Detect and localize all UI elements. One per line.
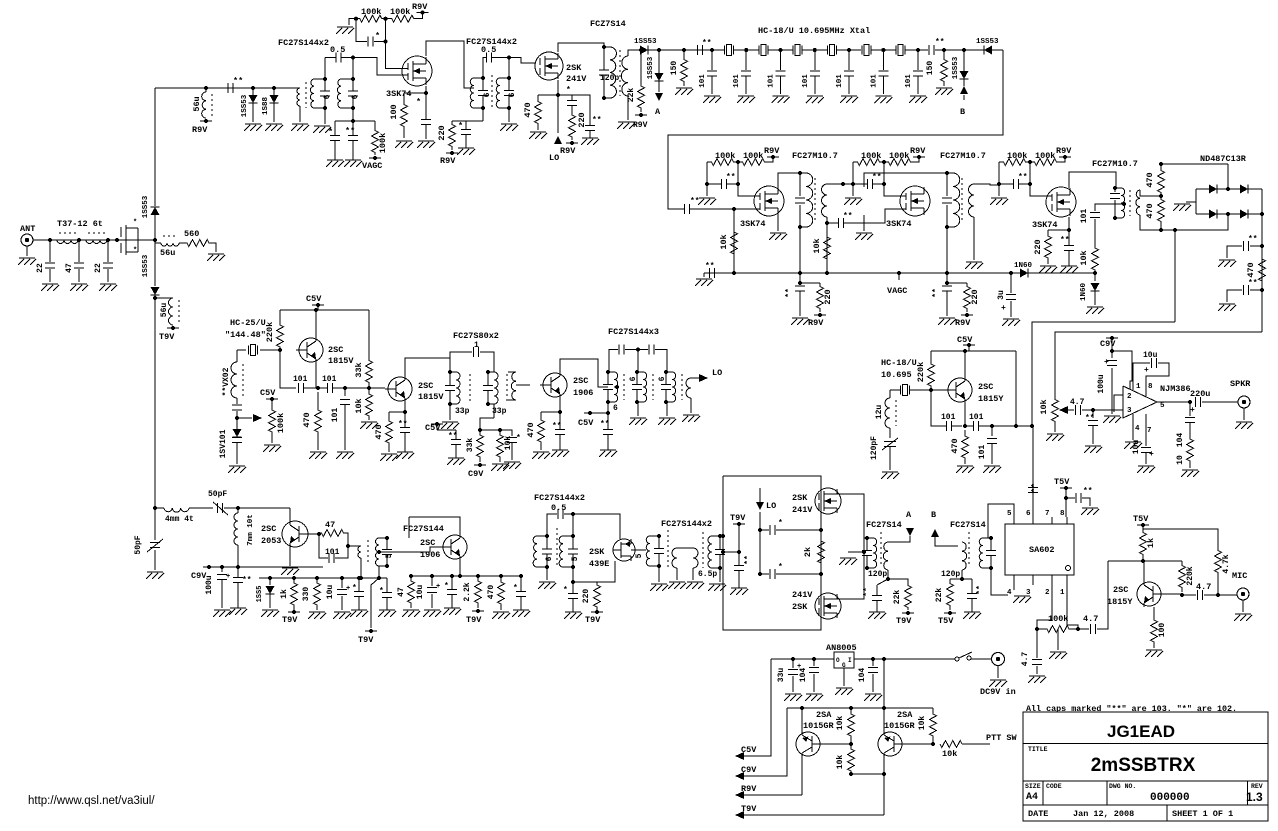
- svg-text:2SK: 2SK: [792, 602, 808, 612]
- svg-text:1SS5: 1SS5: [256, 586, 264, 603]
- svg-text:000000: 000000: [1150, 792, 1190, 804]
- svg-text:1SS53: 1SS53: [634, 38, 657, 46]
- svg-text:100k: 100k: [861, 151, 881, 161]
- svg-text:1N60: 1N60: [1080, 283, 1088, 302]
- svg-text:6: 6: [658, 376, 667, 381]
- svg-text:10: 10: [1176, 455, 1185, 465]
- svg-text:10.695: 10.695: [881, 370, 912, 380]
- svg-text:100k: 100k: [715, 151, 735, 161]
- svg-text:104: 104: [1176, 433, 1185, 448]
- svg-text:10u: 10u: [326, 585, 335, 600]
- svg-text:*: *: [563, 586, 568, 595]
- svg-text:C5V: C5V: [578, 418, 594, 428]
- svg-text:**: **: [705, 262, 715, 271]
- svg-text:4mm 4t: 4mm 4t: [165, 515, 194, 524]
- svg-text:NJM386: NJM386: [1160, 384, 1191, 394]
- svg-text:1: 1: [1060, 589, 1065, 597]
- svg-text:220: 220: [1033, 239, 1043, 254]
- svg-text:*: *: [778, 519, 783, 528]
- svg-text:470: 470: [487, 585, 496, 600]
- svg-text:4.7: 4.7: [1083, 614, 1098, 624]
- svg-text:5: 5: [385, 553, 394, 558]
- svg-text:**: **: [600, 420, 610, 429]
- svg-text:**: **: [1083, 487, 1093, 496]
- svg-text:R9V: R9V: [764, 146, 780, 156]
- svg-text:2053: 2053: [261, 536, 281, 546]
- svg-text:0.5: 0.5: [330, 45, 345, 55]
- svg-text:10k: 10k: [719, 234, 729, 249]
- svg-text:*: *: [352, 584, 357, 593]
- svg-text:**: **: [744, 555, 753, 565]
- svg-text:R9V: R9V: [633, 121, 648, 130]
- svg-text:**: **: [976, 585, 985, 595]
- svg-text:1N60: 1N60: [1014, 262, 1033, 270]
- svg-text:101: 101: [1080, 209, 1089, 224]
- svg-text:**: **: [242, 576, 252, 585]
- svg-text:A: A: [906, 510, 912, 520]
- svg-text:10k: 10k: [354, 398, 364, 413]
- svg-text:HC-18/U: HC-18/U: [881, 358, 917, 368]
- svg-text:10u: 10u: [416, 585, 425, 600]
- svg-text:100k: 100k: [743, 151, 763, 161]
- svg-text:*: *: [778, 563, 783, 572]
- svg-text:330: 330: [302, 587, 311, 602]
- svg-text:FC27M10.7: FC27M10.7: [940, 151, 986, 161]
- svg-text:R9V: R9V: [955, 318, 971, 328]
- svg-text:33u: 33u: [777, 668, 786, 683]
- svg-text:SHEET 1 OF 1: SHEET 1 OF 1: [1172, 809, 1233, 819]
- svg-text:1815Y: 1815Y: [978, 394, 1004, 404]
- svg-text:470: 470: [523, 102, 533, 117]
- svg-text:Jan 12, 2008: Jan 12, 2008: [1073, 809, 1134, 819]
- svg-text:100k: 100k: [390, 7, 410, 17]
- svg-text:**: **: [843, 212, 853, 221]
- svg-text:47: 47: [65, 263, 74, 273]
- svg-text:4.7: 4.7: [1070, 398, 1085, 407]
- svg-text:10k: 10k: [1079, 250, 1089, 265]
- svg-text:ANT: ANT: [20, 224, 35, 234]
- svg-text:220: 220: [437, 125, 447, 140]
- svg-text:101: 101: [331, 408, 340, 423]
- svg-text:2SK: 2SK: [589, 547, 605, 557]
- svg-text:6: 6: [508, 92, 517, 97]
- svg-text:T9V: T9V: [466, 615, 482, 625]
- svg-text:22: 22: [94, 263, 103, 273]
- svg-text:22: 22: [36, 263, 45, 273]
- svg-text:FC27S144x3: FC27S144x3: [608, 327, 659, 337]
- svg-text:10u: 10u: [1143, 351, 1158, 360]
- svg-text:104: 104: [799, 668, 808, 683]
- svg-text:101: 101: [978, 445, 987, 460]
- svg-text:4.7k: 4.7k: [1222, 554, 1231, 573]
- svg-text:2mSSBTRX: 2mSSBTRX: [1091, 755, 1196, 776]
- svg-text:101: 101: [941, 413, 956, 422]
- svg-text:1S88: 1S88: [262, 97, 270, 116]
- svg-text:50pF: 50pF: [134, 535, 143, 554]
- svg-text:**: **: [872, 173, 882, 182]
- svg-text:220: 220: [823, 289, 833, 304]
- svg-text:33k: 33k: [466, 438, 475, 453]
- svg-text:**: **: [690, 197, 700, 206]
- svg-text:VAGC: VAGC: [887, 286, 907, 296]
- svg-text:6: 6: [1026, 510, 1031, 518]
- svg-text:*: *: [416, 97, 421, 107]
- svg-text:241V: 241V: [566, 74, 587, 84]
- svg-text:C9V: C9V: [1100, 339, 1116, 349]
- svg-text:T9V: T9V: [358, 635, 374, 645]
- svg-text:ND487C13R: ND487C13R: [1200, 154, 1247, 164]
- svg-text:http://www.qsl.net/va3iul/: http://www.qsl.net/va3iul/: [28, 795, 155, 807]
- svg-text:6: 6: [351, 94, 360, 99]
- svg-text:R9V: R9V: [192, 125, 208, 135]
- svg-text:241V: 241V: [792, 590, 813, 600]
- svg-text:6: 6: [545, 556, 554, 561]
- svg-text:220: 220: [970, 289, 980, 304]
- svg-text:TITLE: TITLE: [1028, 746, 1048, 753]
- svg-text:*: *: [444, 582, 449, 591]
- svg-text:FC27S14: FC27S14: [866, 520, 902, 530]
- svg-text:FC27S14: FC27S14: [950, 520, 986, 530]
- svg-text:B: B: [931, 510, 936, 520]
- svg-text:56u: 56u: [160, 303, 169, 318]
- svg-text:R9V: R9V: [412, 2, 428, 12]
- svg-text:CODE: CODE: [1046, 783, 1062, 790]
- svg-text:FC27S144x2: FC27S144x2: [278, 38, 329, 48]
- svg-text:VAGC: VAGC: [362, 161, 382, 171]
- svg-text:101: 101: [969, 413, 984, 422]
- svg-text:C9V: C9V: [468, 469, 484, 479]
- svg-text:R9V: R9V: [440, 156, 456, 166]
- svg-text:HC-18/U 10.695MHz Xtal: HC-18/U 10.695MHz Xtal: [758, 26, 870, 36]
- svg-text:**: **: [1060, 236, 1070, 245]
- svg-text:100k: 100k: [378, 133, 388, 153]
- svg-text:22k: 22k: [627, 88, 636, 103]
- svg-text:120p: 120p: [600, 74, 619, 83]
- svg-text:6: 6: [613, 404, 618, 413]
- svg-text:1906: 1906: [420, 550, 440, 560]
- svg-text:**: **: [398, 420, 408, 429]
- svg-text:C5V: C5V: [425, 423, 441, 433]
- svg-text:10k: 10k: [812, 238, 822, 253]
- svg-text:101: 101: [836, 74, 844, 88]
- svg-text:56u: 56u: [160, 248, 175, 258]
- svg-text:104: 104: [858, 668, 867, 683]
- svg-text:C5V: C5V: [957, 335, 973, 345]
- svg-text:470: 470: [1145, 203, 1155, 218]
- svg-text:100k: 100k: [361, 7, 381, 17]
- svg-text:LO: LO: [766, 501, 776, 511]
- svg-text:3SK74: 3SK74: [386, 89, 412, 99]
- svg-text:**: **: [448, 432, 458, 441]
- svg-text:1k: 1k: [280, 589, 289, 599]
- svg-text:+: +: [1144, 366, 1149, 375]
- svg-text:I: I: [848, 657, 852, 664]
- svg-text:2SC: 2SC: [1113, 585, 1128, 595]
- svg-text:**: **: [592, 116, 602, 125]
- svg-text:150: 150: [926, 61, 935, 76]
- svg-text:R9V: R9V: [741, 784, 757, 794]
- svg-text:6: 6: [483, 92, 492, 97]
- svg-text:100: 100: [1158, 623, 1167, 638]
- svg-text:439E: 439E: [589, 559, 609, 569]
- svg-text:100k: 100k: [1048, 614, 1068, 624]
- svg-text:T5V: T5V: [1133, 514, 1149, 524]
- svg-text:100k: 100k: [276, 413, 286, 433]
- svg-text:*: *: [513, 584, 518, 593]
- svg-text:101: 101: [733, 74, 741, 88]
- svg-text:220k: 220k: [1186, 566, 1195, 585]
- svg-text:**: **: [1248, 279, 1258, 288]
- svg-text:220k: 220k: [916, 362, 926, 382]
- svg-text:+: +: [346, 585, 350, 593]
- svg-text:3SK74: 3SK74: [886, 219, 912, 229]
- svg-text:SIZE: SIZE: [1025, 783, 1041, 790]
- svg-text:101: 101: [802, 74, 810, 88]
- svg-text:C5V: C5V: [306, 294, 322, 304]
- svg-text:DATE: DATE: [1028, 809, 1048, 819]
- svg-text:T9V: T9V: [741, 804, 757, 814]
- svg-text:22k: 22k: [935, 588, 944, 603]
- svg-text:2SC: 2SC: [261, 524, 276, 534]
- svg-text:3: 3: [1127, 407, 1132, 415]
- svg-text:2.2k: 2.2k: [463, 582, 472, 601]
- svg-text:R9V: R9V: [910, 146, 926, 156]
- svg-text:8: 8: [1060, 510, 1065, 518]
- svg-text:A4: A4: [1026, 792, 1038, 803]
- svg-text:+: +: [1001, 304, 1006, 313]
- svg-text:**: **: [726, 173, 736, 182]
- svg-text:100u: 100u: [1097, 374, 1106, 393]
- svg-text:101: 101: [325, 548, 340, 557]
- svg-text:T9V: T9V: [282, 615, 298, 625]
- svg-text:*: *: [375, 31, 380, 41]
- svg-text:1: 1: [1136, 383, 1141, 391]
- svg-text:2SC: 2SC: [978, 382, 993, 392]
- svg-text:3SK74: 3SK74: [1032, 220, 1058, 230]
- svg-text:**: **: [1085, 414, 1095, 423]
- svg-text:*: *: [328, 127, 333, 137]
- svg-text:1k: 1k: [1146, 538, 1156, 548]
- svg-text:*: *: [133, 247, 137, 255]
- svg-text:T37-12 6t: T37-12 6t: [57, 219, 103, 229]
- svg-text:2SC: 2SC: [328, 345, 343, 355]
- svg-text:MIC: MIC: [1232, 571, 1247, 581]
- svg-text:DWG NO.: DWG NO.: [1109, 783, 1136, 790]
- svg-text:6.5p: 6.5p: [698, 570, 717, 579]
- svg-text:100k: 100k: [1035, 151, 1055, 161]
- svg-text:22k: 22k: [893, 590, 902, 605]
- svg-text:LO: LO: [712, 368, 722, 378]
- svg-text:120p: 120p: [868, 570, 887, 579]
- svg-text:220u: 220u: [1190, 389, 1210, 399]
- svg-text:470: 470: [1145, 172, 1155, 187]
- svg-text:*: *: [133, 219, 137, 227]
- svg-text:1SV101: 1SV101: [219, 429, 228, 458]
- svg-text:**: **: [935, 38, 945, 47]
- svg-text:2SC: 2SC: [420, 538, 435, 548]
- svg-text:3u: 3u: [997, 290, 1006, 300]
- svg-text:2SC: 2SC: [573, 376, 588, 386]
- svg-text:2k: 2k: [803, 547, 813, 557]
- svg-text:REV: REV: [1251, 783, 1263, 790]
- svg-text:A: A: [655, 107, 661, 117]
- svg-text:8: 8: [1148, 383, 1153, 391]
- svg-text:**: **: [785, 288, 794, 298]
- svg-text:5: 5: [635, 553, 644, 558]
- svg-text:**: **: [1248, 235, 1258, 244]
- svg-text:470: 470: [302, 412, 312, 427]
- svg-text:101: 101: [905, 74, 913, 88]
- svg-text:1015GR: 1015GR: [803, 721, 835, 731]
- svg-text:4: 4: [1007, 589, 1012, 597]
- svg-text:50pF: 50pF: [208, 490, 227, 499]
- svg-text:150: 150: [670, 61, 679, 76]
- svg-text:120p: 120p: [941, 570, 960, 579]
- svg-text:33k: 33k: [354, 362, 364, 377]
- svg-text:O: O: [836, 657, 840, 664]
- svg-text:101: 101: [870, 74, 878, 88]
- svg-text:*: *: [458, 121, 463, 131]
- svg-text:T5V: T5V: [1054, 477, 1070, 487]
- svg-text:T9V: T9V: [896, 616, 912, 626]
- svg-text:**: **: [932, 288, 941, 298]
- svg-text:B: B: [960, 107, 965, 117]
- svg-text:100k: 100k: [1007, 151, 1027, 161]
- svg-text:G: G: [842, 662, 846, 669]
- svg-text:**VX02: **VX02: [222, 367, 231, 396]
- svg-text:1015GR: 1015GR: [884, 721, 916, 731]
- svg-text:220: 220: [582, 589, 591, 604]
- svg-text:470: 470: [526, 422, 536, 437]
- svg-text:1906: 1906: [573, 388, 593, 398]
- svg-text:HC-25/U: HC-25/U: [230, 318, 266, 328]
- svg-text:47: 47: [397, 587, 406, 597]
- svg-text:2SK: 2SK: [792, 493, 808, 503]
- svg-text:FCZ7S14: FCZ7S14: [590, 19, 626, 29]
- svg-text:470: 470: [1246, 262, 1256, 277]
- svg-text:47: 47: [325, 520, 335, 530]
- svg-text:1SS53: 1SS53: [952, 56, 960, 79]
- svg-text:**: **: [702, 39, 712, 48]
- svg-text:R9V: R9V: [560, 146, 576, 156]
- svg-text:T9V: T9V: [159, 332, 175, 342]
- svg-text:56u: 56u: [192, 96, 202, 111]
- svg-text:2SA: 2SA: [816, 710, 832, 720]
- svg-text:FC27S144x2: FC27S144x2: [534, 493, 585, 503]
- svg-text:1SS53: 1SS53: [241, 94, 249, 117]
- svg-text:120pF: 120pF: [870, 436, 879, 460]
- svg-text:100: 100: [389, 104, 399, 119]
- svg-text:+: +: [1190, 406, 1195, 415]
- svg-text:10k: 10k: [836, 716, 845, 731]
- svg-text:*: *: [379, 587, 384, 596]
- svg-text:T9V: T9V: [585, 615, 601, 625]
- svg-text:560: 560: [184, 229, 199, 239]
- svg-text:**: **: [345, 126, 355, 136]
- svg-text:+: +: [436, 583, 440, 591]
- svg-text:12u: 12u: [875, 405, 884, 420]
- svg-text:FC27M10.7: FC27M10.7: [1092, 159, 1138, 169]
- svg-text:+: +: [226, 573, 230, 581]
- svg-text:241V: 241V: [792, 505, 813, 515]
- svg-text:101: 101: [699, 74, 707, 88]
- svg-text:7: 7: [1045, 510, 1050, 518]
- svg-text:7mm 10t: 7mm 10t: [247, 514, 255, 546]
- svg-text:**: **: [552, 422, 562, 431]
- svg-text:R9V: R9V: [1056, 146, 1072, 156]
- svg-text:1815V: 1815V: [418, 392, 444, 402]
- svg-text:1815Y: 1815Y: [1107, 597, 1133, 607]
- svg-text:**: **: [233, 76, 243, 86]
- svg-text:1SS53: 1SS53: [142, 195, 150, 218]
- svg-text:DC9V in: DC9V in: [980, 687, 1016, 697]
- svg-text:**: **: [1018, 173, 1028, 182]
- svg-text:2SC: 2SC: [418, 381, 433, 391]
- svg-text:1815V: 1815V: [328, 356, 354, 366]
- svg-text:C9V: C9V: [741, 765, 757, 775]
- svg-text:2: 2: [1127, 393, 1132, 401]
- svg-text:10u: 10u: [1132, 440, 1141, 455]
- svg-text:T9V: T9V: [730, 513, 746, 523]
- svg-text:2: 2: [1045, 589, 1050, 597]
- svg-text:6: 6: [629, 376, 638, 381]
- svg-text:7: 7: [1147, 427, 1152, 435]
- svg-text:**: **: [1031, 483, 1040, 493]
- svg-text:4.7: 4.7: [1196, 582, 1211, 592]
- svg-text:C5V: C5V: [741, 745, 757, 755]
- svg-text:101: 101: [322, 375, 337, 384]
- svg-text:*: *: [566, 86, 571, 95]
- svg-text:10k: 10k: [918, 716, 927, 731]
- svg-text:LO: LO: [549, 153, 559, 163]
- svg-text:"144.48": "144.48": [225, 330, 266, 340]
- svg-text:10k: 10k: [1039, 399, 1049, 414]
- svg-text:+: +: [1149, 450, 1154, 459]
- svg-text:1SS53: 1SS53: [142, 254, 150, 277]
- svg-text:1SS53: 1SS53: [976, 38, 999, 46]
- svg-text:100u: 100u: [205, 575, 214, 594]
- svg-text:JG1EAD: JG1EAD: [1107, 722, 1175, 741]
- svg-text:*: *: [516, 434, 521, 443]
- svg-text:1SS53: 1SS53: [647, 56, 655, 79]
- svg-text:101: 101: [768, 74, 776, 88]
- svg-text:SA602: SA602: [1029, 545, 1055, 555]
- svg-text:3SK74: 3SK74: [740, 219, 766, 229]
- svg-text:FC27M10.7: FC27M10.7: [792, 151, 838, 161]
- svg-text:2SA: 2SA: [897, 710, 913, 720]
- svg-text:**: **: [863, 587, 872, 597]
- svg-text:4.7: 4.7: [1021, 652, 1030, 667]
- svg-text:PTT SW: PTT SW: [986, 733, 1018, 743]
- svg-text:FC27S80x2: FC27S80x2: [453, 331, 499, 341]
- svg-text:33p: 33p: [455, 407, 470, 416]
- svg-text:1.3: 1.3: [1246, 790, 1263, 804]
- svg-text:10k: 10k: [942, 749, 957, 759]
- svg-text:C5V: C5V: [260, 388, 276, 398]
- svg-text:+: +: [1104, 358, 1109, 367]
- svg-text:FC27S144x2: FC27S144x2: [661, 519, 712, 529]
- svg-text:101: 101: [293, 375, 308, 384]
- svg-text:SPKR: SPKR: [1230, 379, 1251, 389]
- svg-text:470: 470: [374, 424, 384, 439]
- svg-text:R9V: R9V: [808, 318, 824, 328]
- svg-text:5: 5: [1007, 510, 1012, 518]
- svg-text:5: 5: [571, 556, 580, 561]
- svg-text:2SK: 2SK: [566, 63, 582, 73]
- svg-text:6: 6: [323, 94, 332, 99]
- svg-text:T5V: T5V: [938, 616, 954, 626]
- svg-text:100k: 100k: [889, 151, 909, 161]
